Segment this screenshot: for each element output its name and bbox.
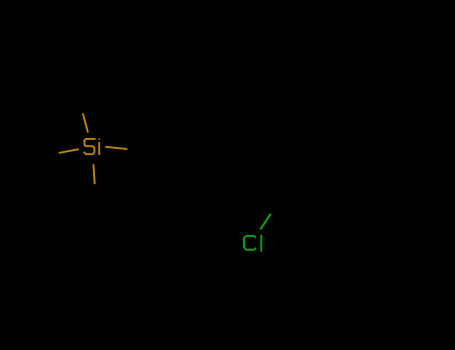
atom Si label, letter i stem (98, 142, 100, 155)
atom Cl label, letter l (260, 235, 262, 252)
bond Si-CH3 up (half-bond stub) (83, 113, 88, 132)
bond Si-C alkyne right (half-bond stub) (105, 147, 127, 149)
bond Si-CH3 down (half-bond stub) (93, 164, 94, 184)
bond C-Cl (half-bond stub, chlorine colored) (260, 214, 270, 230)
bond Si-CH3 left (half-bond stub) (59, 149, 79, 153)
atom Si label, letter i dot (98, 139, 100, 140)
atom Si (trimethylsilyl) label, letter S (84, 139, 94, 154)
atom Cl label, letter C (244, 236, 255, 250)
